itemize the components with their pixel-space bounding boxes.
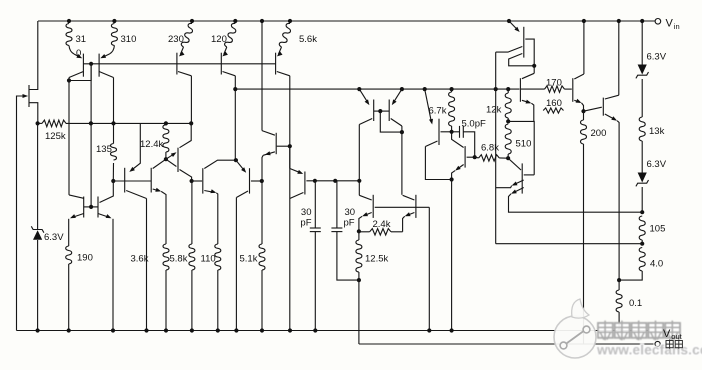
resistor 120 diagonal bbox=[211, 23, 236, 56]
svg-text:0.1: 0.1 bbox=[629, 298, 642, 309]
resistor 310 right bbox=[100, 24, 136, 59]
wire Q6 collector column bbox=[190, 76, 192, 124]
transistor Q5 mirror right bbox=[98, 181, 113, 218]
resistor 5.1k bbox=[240, 181, 266, 331]
node base tie Q2 Q3 bbox=[67, 62, 99, 83]
node rail junctions top bbox=[67, 19, 644, 23]
resistor 12.5k bbox=[356, 231, 389, 280]
resistor 4.0 bbox=[619, 248, 663, 281]
node B feedback tap bbox=[640, 242, 644, 246]
node 510 bottom bbox=[506, 156, 510, 160]
node A feedback tap bbox=[640, 210, 644, 214]
node 135 bottom bbox=[111, 179, 115, 183]
resistor 5.6k diagonal bbox=[277, 23, 317, 56]
svg-text:in: in bbox=[674, 22, 680, 31]
svg-text:5.8k: 5.8k bbox=[170, 254, 188, 265]
svg-text:30: 30 bbox=[301, 207, 312, 218]
svg-text:www.elecfans.com: www.elecfans.com bbox=[596, 343, 702, 358]
resistor 6.8k bbox=[475, 143, 508, 162]
transistor Q13 pnp T-d bbox=[236, 160, 262, 197]
node 12.5k top bbox=[357, 229, 361, 233]
wire P1 collector column bbox=[358, 125, 360, 181]
wire adjust rail bbox=[359, 343, 654, 345]
wire 12k node to Q23 collector bbox=[508, 121, 534, 174]
transistor Q2 pnp pair left bbox=[69, 54, 83, 78]
resistor 190 bbox=[66, 219, 93, 331]
svg-text:200: 200 bbox=[591, 128, 607, 139]
svg-text:6.8k: 6.8k bbox=[481, 143, 499, 154]
resistor 0.1 bbox=[616, 280, 642, 330]
svg-text:pF: pF bbox=[300, 218, 311, 229]
transistor Q23 dual emitter npn bbox=[496, 158, 535, 194]
terminal Vin bbox=[655, 18, 680, 32]
transistor Q3 pnp pair right bbox=[99, 54, 113, 78]
svg-text:310: 310 bbox=[121, 34, 137, 45]
watermark logo bbox=[554, 299, 596, 358]
wire zener to node A bbox=[641, 187, 643, 212]
wire feedback B bbox=[496, 243, 643, 245]
node rail junctions bottom bbox=[36, 328, 622, 332]
svg-text:V: V bbox=[666, 18, 674, 30]
svg-text:13k: 13k bbox=[649, 126, 665, 137]
transistor Q10 npn T-a2 bbox=[151, 159, 166, 244]
svg-text:0: 0 bbox=[76, 48, 81, 59]
wire Q9 collector to rail bbox=[146, 199, 148, 331]
node Qt base node bbox=[288, 144, 292, 148]
svg-text:V: V bbox=[663, 328, 671, 340]
node 12.5k bottom bbox=[357, 278, 361, 282]
wire Q21 emitter to rail bbox=[451, 180, 453, 331]
capacitor C3 5.0pF bbox=[452, 119, 486, 158]
wire Q3 collector column bbox=[113, 78, 115, 124]
zener D3 6.3V bbox=[636, 159, 667, 186]
svg-text:160: 160 bbox=[546, 98, 562, 109]
transistor Q7 pnp 120 bbox=[221, 53, 235, 76]
wire bottom rail bbox=[17, 330, 649, 332]
watermark text bbox=[596, 321, 702, 357]
transistor Q15 pnp bbox=[290, 146, 305, 198]
wire left gate line bbox=[17, 96, 28, 331]
transistor Q8 pnp 5.6k bbox=[276, 53, 290, 76]
resistor 160 bbox=[543, 98, 563, 113]
capacitor C2 30pF bbox=[331, 181, 359, 280]
transistor Q11 pnp T-b bbox=[166, 123, 192, 181]
svg-text:6.3V: 6.3V bbox=[44, 232, 64, 243]
resistor 3.6k bbox=[131, 244, 170, 331]
node composite collector bbox=[532, 64, 536, 68]
resistor 170 bbox=[521, 78, 572, 93]
resistor 12.4k bbox=[140, 125, 169, 160]
transistor Q18 pnp P1 bbox=[359, 89, 373, 124]
svg-text:30: 30 bbox=[345, 207, 356, 218]
svg-text:510: 510 bbox=[516, 139, 532, 150]
wire feedback A bbox=[509, 194, 643, 212]
wire mirror right emitter to rail bbox=[112, 219, 114, 331]
transistor Q1 input JFET bbox=[23, 21, 38, 123]
transistor Q9 pnp T-a1 bbox=[125, 123, 147, 198]
resistor 2.4k bbox=[359, 219, 403, 235]
transistor Q22 composite pnp top bbox=[496, 21, 535, 66]
wire Q8 collector column bbox=[289, 76, 291, 331]
node 0.1 top bbox=[617, 278, 621, 282]
svg-text:out: out bbox=[671, 332, 682, 341]
svg-text:125k: 125k bbox=[45, 131, 66, 142]
resistor 135 bbox=[96, 123, 117, 181]
svg-text:5.1k: 5.1k bbox=[240, 254, 258, 265]
svg-text:230: 230 bbox=[168, 34, 184, 45]
node 200 top bbox=[581, 109, 585, 113]
svg-text:110: 110 bbox=[201, 254, 216, 265]
transistor Q4 mirror left bbox=[69, 195, 84, 218]
svg-text:190: 190 bbox=[77, 253, 93, 264]
wire bus y89 bbox=[233, 87, 519, 91]
transistor Q17 npn TR bbox=[403, 195, 416, 232]
wire rail drop x262 bbox=[261, 21, 263, 131]
transistor Q21 npn bbox=[452, 132, 475, 180]
zener D1 6.3V left bbox=[31, 123, 64, 330]
transistor Q16 npn TL bbox=[359, 181, 429, 232]
capacitor C1 30pF bbox=[300, 181, 320, 331]
wire base bus upper pnp row bbox=[99, 63, 276, 65]
resistor 125k bbox=[42, 120, 66, 142]
svg-text:5.0pF: 5.0pF bbox=[462, 119, 486, 130]
resistor 230 diagonal bbox=[168, 23, 193, 56]
resistor 13k bbox=[639, 79, 664, 173]
transistor Q25 npn 170 right bbox=[573, 21, 584, 111]
svg-text:105: 105 bbox=[650, 224, 666, 235]
transistor Q20 pnp 6.7k bbox=[425, 89, 452, 146]
svg-text:12k: 12k bbox=[486, 105, 502, 116]
transistor Q6 pnp 230 bbox=[177, 53, 192, 76]
svg-text:5.6k: 5.6k bbox=[299, 34, 317, 45]
wire base wire y181 bbox=[113, 180, 151, 182]
svg-text:135: 135 bbox=[96, 144, 112, 155]
transistor Q26 npn output bbox=[584, 21, 620, 280]
wire composite base column bbox=[495, 52, 497, 244]
wire adjust column bbox=[358, 280, 360, 344]
svg-text:pF: pF bbox=[344, 218, 355, 229]
wire Q13 collector to rail bbox=[235, 198, 237, 331]
wire Q20 collector bbox=[425, 147, 451, 180]
wire Q7 collector column bbox=[234, 76, 236, 160]
resistor 105 bbox=[639, 216, 665, 244]
resistor 12k bbox=[486, 89, 511, 121]
wire Q16 base to rail bbox=[428, 207, 430, 330]
terminal Vout label bbox=[663, 328, 683, 349]
wire P2 collector column bbox=[401, 126, 403, 195]
resistor 110 bbox=[201, 244, 221, 331]
transistor Q24 npn 170 left bbox=[520, 66, 534, 122]
node P2 collector node bbox=[400, 130, 404, 134]
node base node y181 x191 bbox=[190, 179, 194, 183]
wire base bus y180.8 bbox=[306, 179, 361, 183]
resistor 310 left bbox=[66, 24, 86, 60]
node 12k bottom bbox=[506, 119, 510, 123]
wire top supply rail bbox=[38, 20, 655, 22]
transistor Q14 npn Q-t bbox=[262, 131, 290, 181]
wire 200 bottom to adjust bbox=[583, 144, 585, 344]
wire base column x91 bbox=[90, 64, 92, 207]
zener D2 6.3V bbox=[636, 21, 667, 78]
svg-text:3.6k: 3.6k bbox=[131, 254, 149, 265]
node mirror base tie bbox=[84, 205, 98, 209]
svg-text:4.0: 4.0 bbox=[650, 259, 663, 270]
node P base tie bbox=[374, 109, 402, 132]
svg-text:120: 120 bbox=[211, 34, 227, 45]
resistor 6.7k bbox=[429, 89, 455, 132]
svg-text:31: 31 bbox=[76, 34, 87, 45]
terminal Vout adjust bbox=[655, 341, 660, 346]
wire Q2 collector column bbox=[68, 78, 70, 195]
resistor 510 bbox=[505, 124, 531, 158]
wire horizontal node 123 bbox=[36, 121, 194, 125]
transistor Q12 npn T-c bbox=[192, 160, 236, 244]
svg-text:170: 170 bbox=[546, 78, 562, 89]
node base node x262 bbox=[260, 179, 264, 183]
node Q21 emitter node bbox=[450, 177, 454, 181]
node 6.8k left bbox=[473, 155, 477, 159]
svg-text:6.3V: 6.3V bbox=[647, 52, 667, 63]
svg-text:12.4k: 12.4k bbox=[140, 139, 163, 150]
svg-text:6.3V: 6.3V bbox=[647, 159, 667, 170]
node Q7 collector node bbox=[234, 158, 238, 162]
resistor 5.8k bbox=[170, 181, 195, 331]
svg-text:6.7k: 6.7k bbox=[429, 106, 447, 117]
transistor Q19 pnp P2 bbox=[389, 89, 402, 126]
svg-text:12.5k: 12.5k bbox=[365, 254, 388, 265]
node 6.7k bottom bbox=[450, 130, 454, 134]
resistor 200 bbox=[581, 111, 607, 144]
node 12.4k bottom bbox=[164, 157, 168, 161]
svg-text:2.4k: 2.4k bbox=[373, 219, 391, 230]
